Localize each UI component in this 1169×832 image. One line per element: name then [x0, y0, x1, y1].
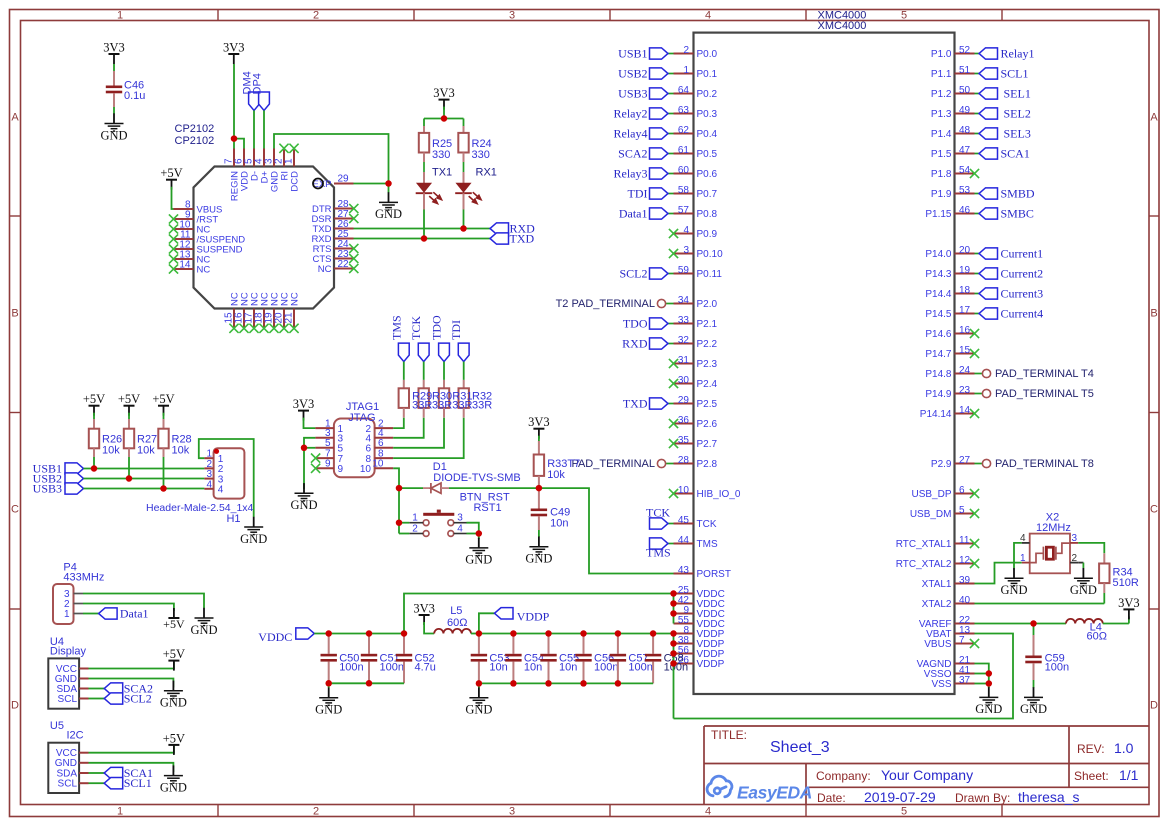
wire VDDC bottom rail [329, 682, 404, 684]
svg-text:3: 3 [1072, 533, 1078, 544]
svg-text:4: 4 [683, 225, 689, 236]
junction dot (478.8,533.5) [476, 530, 483, 537]
XMC4000 pin 60 P0.6 (left) [674, 173, 694, 175]
no-connect X on pin 54 [970, 169, 979, 178]
LED RX1 [457, 183, 471, 192]
net flag Relay1 [975, 53, 980, 55]
svg-text:43: 43 [678, 565, 690, 576]
XMC4000 pin 61 P0.5 (left) [674, 153, 694, 155]
svg-text:P2.9: P2.9 [931, 459, 952, 470]
XMC4000 pin 52 P1.0 (right) [955, 53, 975, 55]
svg-text:P1.2: P1.2 [931, 89, 952, 100]
XMC4000 pin 58 P0.7 (left) [674, 193, 694, 195]
CP2102 pin 4 D+ (top) [263, 149, 265, 167]
svg-text:3V3: 3V3 [103, 41, 125, 55]
svg-text:SMBD: SMBD [1001, 187, 1035, 201]
svg-text:+5V: +5V [160, 166, 182, 180]
svg-text:TXD: TXD [510, 232, 535, 246]
wire U4 SDA to SCA2 [89, 688, 105, 690]
svg-text:+5V: +5V [83, 392, 105, 406]
net flag SEL1 [975, 93, 980, 95]
wire +5V to R26 [93, 413, 95, 419]
pad terminal PAD_TERMINAL T5 [975, 393, 983, 395]
CP2102 pin 29 EXP (right) [334, 183, 354, 185]
net flag TDI [668, 193, 674, 195]
svg-text:1: 1 [284, 158, 295, 164]
XMC4000 pin 26 VDDP (left) [674, 663, 694, 665]
svg-text:49: 49 [959, 105, 971, 116]
wire DM4 to D- [253, 111, 255, 149]
net flag USB3 [668, 93, 674, 95]
svg-text:TDO: TDO [623, 317, 648, 331]
svg-text:TMS: TMS [646, 546, 671, 560]
CP2102 pin 22 NC (right) [334, 268, 354, 270]
wire JTAG pin5 [304, 447, 315, 449]
junction dot (129,478.5) [126, 475, 133, 482]
XMC4000 pin 21 VAGND (right) [955, 663, 975, 665]
junction dot (478.9,683.4) [476, 680, 483, 687]
XMC4000 pin 47 P1.5 (right) [955, 153, 975, 155]
junction dot (369,683.3) [366, 680, 373, 687]
wire R28 to USB net [163, 448, 165, 457]
XMC4000 pin 31 P2.3 (left) [674, 363, 694, 365]
svg-text:433MHz: 433MHz [63, 572, 104, 584]
power flag 3V3 (C46) [109, 53, 120, 55]
net flag SCL2 [668, 273, 674, 275]
XMC4000 pin 62 P0.4 (left) [674, 133, 694, 135]
no-connect X on pin 14 [169, 264, 178, 273]
svg-text:3V3: 3V3 [1118, 596, 1140, 610]
svg-text:33R: 33R [452, 400, 472, 412]
svg-text:60: 60 [678, 165, 690, 176]
XMC4000 pin 2 P0.0 (left) [674, 53, 694, 55]
svg-text:SCL2: SCL2 [124, 692, 152, 706]
svg-text:P1.5: P1.5 [931, 149, 952, 160]
wire U5 SDA to SCA1 [89, 772, 105, 774]
XMC4000 pin 30 P2.4 (left) [674, 383, 694, 385]
wire C52 to VDDC pins [404, 594, 674, 634]
net flag RXD [668, 343, 674, 345]
net flag USB2 (header) [65, 473, 84, 484]
svg-text:USB2: USB2 [618, 67, 647, 81]
wire L4 to 3V3 [1103, 623, 1129, 625]
wire X2 pin3 to R34 [1078, 543, 1104, 553]
svg-text:4: 4 [705, 806, 711, 818]
junction dot (673.5,603.5) [670, 600, 677, 607]
net flag SCA2 (U4) [104, 683, 123, 694]
svg-text:XMC4000: XMC4000 [818, 20, 867, 32]
H1 pin 3 [204, 478, 213, 480]
svg-text:30: 30 [678, 375, 690, 386]
svg-text:P1.8: P1.8 [931, 169, 952, 180]
svg-text:GND: GND [160, 780, 187, 794]
svg-text:P0.9: P0.9 [697, 229, 718, 240]
svg-text:61: 61 [678, 145, 690, 156]
svg-text:32: 32 [678, 335, 690, 346]
capacitor C54 10n [512, 634, 514, 654]
inductor L5 60R [434, 629, 471, 634]
wire +5V to R28 [163, 413, 165, 419]
svg-text:100n: 100n [1045, 662, 1069, 674]
no-connect X on pin 16 [239, 324, 248, 333]
junction dot (513.4,683.4) [510, 680, 517, 687]
no-connect X on pin 21 [289, 324, 298, 333]
svg-text:GND: GND [240, 532, 267, 546]
XMC4000 pin 46 P1.15 (right) [955, 213, 975, 215]
svg-text:63: 63 [678, 105, 690, 116]
svg-text:SCL: SCL [58, 779, 78, 790]
junction dot (673.5,653.5) [670, 650, 677, 657]
XMC4000 pin 20 P14.0 (right) [955, 253, 975, 255]
XMC4000 pin 44 TMS (left) [674, 543, 694, 545]
XMC4000 pin 53 P1.9 (right) [955, 193, 975, 195]
svg-text:GND: GND [1000, 583, 1027, 597]
svg-text:VSS: VSS [931, 679, 951, 690]
ground symbol (VDDP caps) [478, 683, 480, 688]
JTAG1 pin 1 (left) [315, 427, 334, 429]
CP2102 pin 5 D- (top) [253, 149, 255, 167]
svg-text:29: 29 [678, 395, 690, 406]
junction dot (94,468.5) [91, 465, 98, 472]
wire VDDP pin jog down to VBAT return [673, 634, 675, 719]
svg-text:+5V: +5V [163, 647, 185, 661]
XMC4000 pin 10 HIB_IO_0 (left) [674, 493, 694, 495]
wire BTN pin1 [399, 522, 409, 524]
wire reset node to PORST [539, 488, 674, 573]
resistor R27 10k [124, 429, 134, 449]
CP2102 pin 11 /SUSPEND (left) [174, 238, 194, 240]
svg-text:RTC_XTAL1: RTC_XTAL1 [896, 539, 952, 550]
svg-text:TITLE:: TITLE: [711, 728, 747, 742]
capacitor C50 100n [328, 634, 330, 654]
svg-text:39: 39 [959, 575, 971, 586]
CP2102 pin 21 NC (bottom) [293, 309, 295, 329]
net flag RXD [490, 223, 509, 234]
wire R26 to USB net [93, 448, 95, 457]
junction dot (388.5,183.5) [385, 180, 392, 187]
CP2102 pin 16 NC (bottom) [243, 309, 245, 329]
svg-text:Drawn By:: Drawn By: [955, 791, 1010, 805]
net flag TCK (JTAG) [418, 343, 429, 362]
EasyEDA logo [707, 776, 812, 802]
svg-text:29: 29 [338, 174, 350, 185]
svg-text:36: 36 [678, 415, 690, 426]
svg-text:22: 22 [338, 259, 350, 270]
XMC4000 pin 56 VDDP (left) [674, 653, 694, 655]
net flag SCL2 (U4) [104, 693, 123, 704]
svg-text:RXD: RXD [622, 337, 648, 351]
net flag TDO (JTAG) [439, 343, 450, 362]
wire JTAG pin10 down [393, 468, 399, 533]
svg-text:GND: GND [525, 552, 552, 566]
wire XTAL1 to X2 pin1 [975, 563, 1022, 584]
svg-text:GND: GND [1070, 583, 1097, 597]
svg-text:RST1: RST1 [473, 502, 501, 514]
CP2102 pin 17 NC (bottom) [253, 309, 255, 329]
svg-text:1: 1 [412, 513, 418, 524]
resistor R26 10k [89, 429, 99, 449]
wire CP2102 RXD to TXD flag [354, 238, 491, 240]
net flag TMS [668, 543, 674, 545]
net flag SEL2 [975, 113, 980, 115]
wire L5 to VDDP rail [471, 633, 479, 635]
power flag +5V (R26) [89, 405, 100, 407]
svg-text:46: 46 [959, 205, 971, 216]
svg-text:4: 4 [457, 524, 463, 535]
XMC4000 pin 28 P2.8 (left) [674, 463, 694, 465]
net flag TDO [668, 323, 674, 325]
svg-text:P1.0: P1.0 [931, 49, 952, 60]
XMC4000 pin 50 P1.2 (right) [955, 93, 975, 95]
XMC4000 pin 25 VDDC (left) [674, 593, 694, 595]
IC U4 Display body [48, 658, 79, 708]
svg-text:DIODE-TVS-SMB: DIODE-TVS-SMB [433, 472, 520, 484]
XMC4000 pin 19 P14.3 (right) [955, 273, 975, 275]
svg-text:58: 58 [678, 185, 690, 196]
svg-text:330: 330 [432, 149, 450, 161]
connector P4 433MHz body [53, 584, 74, 624]
net flag USB2 [668, 73, 674, 75]
wire rail to R25 [423, 119, 425, 127]
junction dot (328.7,683.3) [325, 680, 332, 687]
svg-text:P14.5: P14.5 [925, 309, 952, 320]
CP2102 pin 25 RXD (right) [334, 238, 354, 240]
junction dot (653.1,633.5) [650, 630, 657, 637]
wire C58 bottom [652, 662, 654, 684]
resistor R31 33R [439, 388, 449, 408]
svg-text:1: 1 [683, 65, 689, 76]
svg-text:10n: 10n [489, 662, 507, 674]
no-connect X on CP2102 pin 2 [279, 144, 288, 153]
no-connect X on pin 35 [669, 439, 678, 448]
svg-text:31: 31 [678, 355, 690, 366]
CP2102 pin 2 RI (top) [283, 149, 285, 167]
H1 pin 4 [204, 488, 213, 490]
svg-text:5: 5 [901, 10, 907, 22]
wire VAREF to L4 node [975, 623, 1067, 625]
wire U4 SCL to SCL2 [89, 698, 105, 700]
no-connect X on pin 23 [349, 254, 358, 263]
ground symbol (JTAG) [303, 483, 305, 493]
svg-text:D: D [11, 700, 19, 712]
wire LED rail [424, 118, 464, 120]
wire C59 to GND [1033, 663, 1035, 680]
wire 3V3 to JTAG pin1 [304, 418, 316, 429]
junction dot (404,633.5) [401, 630, 408, 637]
junction dot (163.5,488.5) [160, 485, 167, 492]
svg-text:1.0: 1.0 [1114, 740, 1134, 756]
pad terminal PAD_TERMINAL T4 [975, 373, 983, 375]
resistor R32 33R [459, 388, 469, 408]
wire +5V to R27 [128, 413, 130, 419]
svg-text:SCL1: SCL1 [1001, 67, 1029, 81]
XMC4000 pin 43 PORST (left) [674, 573, 694, 575]
wire D1 anode [399, 487, 423, 489]
wire D1 cathode to R33T7 node [441, 487, 449, 489]
svg-text:USB_DP: USB_DP [911, 489, 951, 500]
wire RX1 to RXD net [463, 210, 465, 229]
svg-text:0.1u: 0.1u [124, 90, 145, 102]
XMC4000 pin 23 P14.9 (right) [955, 393, 975, 395]
capacitor C55 10n [548, 634, 550, 654]
svg-text:Company:: Company: [816, 769, 871, 783]
JTAG1 pin 5 (left) [315, 447, 334, 449]
svg-text:GND: GND [375, 207, 402, 221]
svg-text:P0.5: P0.5 [697, 149, 718, 160]
svg-text:100n: 100n [594, 662, 618, 674]
wire TCK to R30 [423, 362, 425, 380]
svg-text:4: 4 [206, 479, 212, 490]
net flag Current1 [975, 253, 980, 255]
no-connect X on pin 14 [970, 409, 979, 418]
no-connect X on pin 31 [669, 359, 678, 368]
CP2102 pin 26 TXD (right) [334, 228, 354, 230]
XMC4000 pin 4 P0.9 (left) [674, 233, 694, 235]
svg-text:USB_DM: USB_DM [910, 509, 952, 520]
ground symbol (C49) [538, 537, 540, 547]
svg-text:PAD_TERMINAL: PAD_TERMINAL [571, 458, 655, 470]
net flag Relay3 [668, 173, 674, 175]
svg-text:1: 1 [117, 806, 123, 818]
svg-text:GND: GND [290, 498, 317, 512]
svg-text:510R: 510R [1113, 577, 1139, 589]
svg-text:P2.5: P2.5 [697, 399, 718, 410]
CP2102 pin 24 RTS (right) [334, 248, 354, 250]
svg-text:P14.3: P14.3 [925, 269, 952, 280]
svg-text:34: 34 [678, 295, 690, 306]
power flag +5V (CP2102 VBUS) [166, 179, 177, 181]
XMC4000 pin 39 XTAL1 (right) [955, 583, 975, 585]
XMC4000 pin 33 P2.1 (left) [674, 323, 694, 325]
svg-text:27: 27 [959, 455, 971, 466]
XMC4000 pin 54 P1.8 (right) [955, 173, 975, 175]
XMC4000 pin 42 VDDC (left) [674, 603, 694, 605]
ground symbol (CP2102) [388, 184, 390, 193]
ground symbol (X2 pin4) [1013, 568, 1015, 578]
wire JTAG pin3/pin5 to GND [304, 438, 315, 489]
net flag Current3 [975, 293, 980, 295]
net flag TMS (JTAG) [398, 343, 409, 362]
svg-text:18: 18 [959, 285, 971, 296]
svg-text:VBUS: VBUS [924, 639, 952, 650]
svg-text:3: 3 [457, 513, 463, 524]
net flag Relay4 [668, 133, 674, 135]
svg-text:52: 52 [959, 45, 971, 56]
connector H1 Header-Male-2.54_1x4 body [214, 448, 245, 498]
wire to VDD pin6 [234, 139, 244, 149]
H1 pin 1 [204, 457, 213, 459]
wire TX1 to TXD net [423, 210, 425, 239]
svg-text:P0.4: P0.4 [697, 129, 718, 140]
svg-text:51: 51 [959, 65, 971, 76]
svg-text:SCL: SCL [58, 694, 78, 705]
no-connect X on pin 18 [259, 324, 268, 333]
svg-text:Sheet_3: Sheet_3 [770, 739, 830, 756]
svg-text:3V3: 3V3 [223, 41, 245, 55]
svg-text:3: 3 [509, 806, 515, 818]
net flag DM4 [249, 92, 260, 111]
net flag Relay2 [668, 113, 674, 115]
no-connect X on JTAG pin 7 [311, 454, 320, 463]
XMC4000 pin 27 P2.9 (right) [955, 463, 975, 465]
CP2102 pin 15 NC (bottom) [233, 309, 235, 329]
svg-text:TDI: TDI [449, 320, 463, 340]
svg-text:3V3: 3V3 [413, 602, 435, 616]
wire R24 to RX1 [463, 153, 465, 163]
net flag SCA1 [975, 153, 980, 155]
svg-text:50: 50 [959, 85, 971, 96]
XMC4000 pin 40 XTAL2 (right) [955, 603, 975, 605]
ground symbol (C59) [1033, 687, 1035, 697]
svg-text:2: 2 [412, 524, 418, 535]
svg-text:10: 10 [678, 485, 690, 496]
svg-text:TCK: TCK [697, 519, 717, 530]
svg-text:10k: 10k [137, 445, 155, 457]
power flag 3V3 (L5) [419, 614, 430, 616]
svg-text:4: 4 [218, 485, 224, 496]
XMC4000 pin 22 VAREF (right) [955, 623, 975, 625]
svg-text:Data1: Data1 [619, 207, 648, 221]
junction dot (673.5,633.5) [670, 630, 677, 637]
svg-text:+5V: +5V [163, 731, 185, 745]
svg-text:1: 1 [117, 10, 123, 22]
pad terminal T2 PAD_TERMINAL [666, 303, 674, 305]
svg-text:TX1: TX1 [432, 167, 452, 179]
svg-text:Sheet:: Sheet: [1074, 769, 1109, 783]
no-connect X on pin 17 [249, 324, 258, 333]
IC U5 I2C body [48, 743, 79, 793]
svg-text:GND: GND [100, 128, 127, 142]
junction dot (617.9,633.5) [615, 630, 622, 637]
XMC4000 pin 32 P2.2 (left) [674, 343, 694, 345]
net flag SEL3 [975, 133, 980, 135]
no-connect X on pin 22 [349, 264, 358, 273]
svg-text:P14.6: P14.6 [925, 329, 952, 340]
svg-text:GND: GND [190, 623, 217, 637]
XMC4000 pin 35 P2.7 (left) [674, 443, 694, 445]
svg-text:REV:: REV: [1077, 742, 1105, 756]
svg-text:28: 28 [678, 455, 690, 466]
svg-text:4: 4 [705, 10, 711, 22]
JTAG1 pin 9 (left) [315, 467, 334, 469]
wire C59 top [1033, 624, 1035, 636]
U4 pin GND [79, 678, 88, 680]
JTAG1 pin 3 (left) [315, 437, 334, 439]
svg-text:P2.7: P2.7 [697, 439, 718, 450]
svg-text:10n: 10n [559, 662, 577, 674]
no-connect X on pin 5 [970, 509, 979, 518]
junction dot (583.5,683.4) [580, 680, 587, 687]
XMC4000 pin 5 USB_DM (right) [955, 513, 975, 515]
title block [704, 726, 1149, 805]
XMC4000 pin 14 P14.14 (right) [955, 413, 975, 415]
svg-text:TMS: TMS [697, 539, 718, 550]
svg-text:Current4: Current4 [1001, 307, 1044, 321]
no-connect X on pin 11 [169, 234, 178, 243]
net flag TCK [668, 523, 674, 525]
power flag +5V (U4) [168, 660, 179, 662]
wire R33T7 to node [538, 476, 540, 488]
svg-text:TXD: TXD [623, 397, 648, 411]
svg-text:14: 14 [959, 405, 971, 416]
svg-text:330: 330 [472, 149, 490, 161]
net flag SCL1 [975, 73, 980, 75]
svg-text:17: 17 [959, 305, 971, 316]
ground symbol (P4) [203, 608, 205, 618]
svg-text:NC: NC [318, 264, 332, 275]
svg-text:11: 11 [959, 535, 970, 546]
svg-text:P14.0: P14.0 [925, 249, 952, 260]
